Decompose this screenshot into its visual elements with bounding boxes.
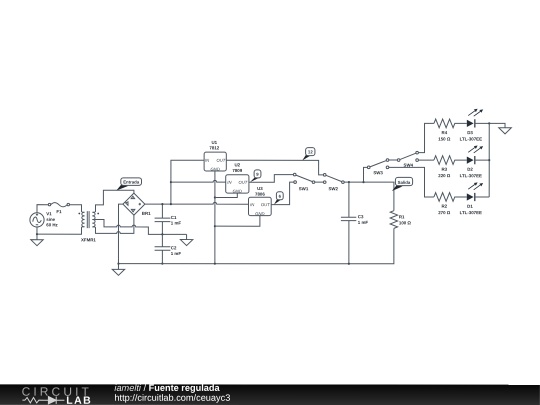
svg-text:R4: R4 xyxy=(442,130,448,135)
svg-text:R2: R2 xyxy=(441,204,447,209)
junction: V1 bottom / primary return / ground xyxy=(36,233,38,235)
wire secondary center tap (H1) to C1/C2 midpoint xyxy=(94,220,186,235)
svg-text:100 Ω: 100 Ω xyxy=(399,220,412,225)
flag 9 xyxy=(250,170,261,182)
junction: gnd line on bottom bus xyxy=(214,263,216,265)
svg-text:D1: D1 xyxy=(467,204,473,209)
resistor R3 xyxy=(434,156,467,178)
svg-text:XFMR1: XFMR1 xyxy=(81,237,96,242)
Salida flag xyxy=(392,177,413,191)
Entrada flag xyxy=(116,178,141,191)
resistor R1 xyxy=(390,211,411,229)
svg-text:OUT: OUT xyxy=(216,158,225,163)
U3 GND wire xyxy=(215,216,260,227)
wire SW4 top throw up to LED row 1 xyxy=(418,123,434,152)
svg-text:220 Ω: 220 Ω xyxy=(438,173,451,178)
wire SW3 pole down to output bus xyxy=(364,167,368,182)
switch SW1 xyxy=(293,173,314,191)
junction: U1 riser on dc bus xyxy=(170,203,172,205)
junction: C2 bottom on bottom bus xyxy=(161,263,163,265)
svg-text:1 mF: 1 mF xyxy=(358,220,369,225)
junction: C3 top on output bus xyxy=(348,181,350,183)
junction: U2 IN tap xyxy=(170,181,172,183)
ground under V1 xyxy=(31,234,43,246)
footer bar xyxy=(0,383,540,405)
svg-text:U1: U1 xyxy=(212,140,218,145)
switch SW3 xyxy=(367,159,388,176)
svg-text:D3: D3 xyxy=(467,130,473,135)
regulator U3 7806 xyxy=(248,186,271,216)
svg-text:V1: V1 xyxy=(46,211,52,216)
LED D1 xyxy=(460,182,490,215)
capacitor C1 xyxy=(155,204,182,234)
svg-text:C3: C3 xyxy=(358,214,364,219)
svg-text:Salida: Salida xyxy=(398,180,411,185)
wire SW3 top throw to SW4 pole xyxy=(389,159,398,161)
right vertical bus xyxy=(488,123,490,197)
svg-text:U3: U3 xyxy=(257,186,263,191)
LED D3 xyxy=(460,109,490,142)
wire SW3 bottom throw to LED row 3 xyxy=(389,167,434,197)
U1 OUT wire to SW2 top xyxy=(226,160,323,175)
junction: bottom bus / bridge ground xyxy=(117,263,119,265)
LED D2 xyxy=(460,145,490,178)
bridge rectifier BR1 xyxy=(123,193,151,216)
fuse F1 xyxy=(48,203,69,215)
svg-text:7812: 7812 xyxy=(209,145,219,150)
wire secondary top to bridge top xyxy=(95,190,133,211)
svg-text:OUT: OUT xyxy=(238,180,247,185)
svg-text:LTL-307EE: LTL-307EE xyxy=(460,210,482,215)
flag 12 xyxy=(302,148,315,161)
junction: U3 GND on gnd line xyxy=(214,225,216,227)
junction: D3 row / right bus / ground xyxy=(488,122,490,124)
svg-text:U2: U2 xyxy=(235,162,241,167)
svg-text:1 mF: 1 mF xyxy=(171,221,182,226)
svg-text:F1: F1 xyxy=(56,209,62,214)
svg-text:270 Ω: 270 Ω xyxy=(438,210,451,215)
svg-text:BR1: BR1 xyxy=(142,211,151,216)
svg-text:D2: D2 xyxy=(467,167,473,172)
regulator U2 7809 xyxy=(226,162,249,193)
U2 IN wire xyxy=(171,180,226,182)
svg-text:GND: GND xyxy=(233,189,242,194)
svg-text:C2: C2 xyxy=(171,245,177,250)
svg-text:LTL-307EE: LTL-307EE xyxy=(460,136,482,141)
voltage source V1 xyxy=(30,205,59,235)
wire bridge left vertex to ground xyxy=(118,204,122,264)
svg-text:C1: C1 xyxy=(171,215,177,220)
bottom bus xyxy=(118,228,393,264)
junction: U2 GND on gnd line xyxy=(214,196,216,198)
junction: C3 bottom on bottom bus xyxy=(348,263,350,265)
svg-text:SW2: SW2 xyxy=(328,186,338,191)
ground under bridge xyxy=(112,264,124,276)
transformer XFMR1 xyxy=(37,211,99,242)
main dc bus from bridge right xyxy=(145,202,249,204)
U3 OUT wire to SW1 bottom xyxy=(271,182,294,205)
ground right xyxy=(489,123,511,134)
svg-text:SW1: SW1 xyxy=(299,186,309,191)
svg-text:GND: GND xyxy=(211,167,220,172)
svg-text:LTL-307EE: LTL-307EE xyxy=(460,173,482,178)
svg-text:R3: R3 xyxy=(442,167,448,172)
wire SW1 pole to SW2 bottom throw xyxy=(315,181,324,183)
svg-text:R1: R1 xyxy=(399,214,405,219)
ground at C1/C2 midpoint xyxy=(180,234,192,245)
svg-text:12: 12 xyxy=(308,149,313,154)
junction: C1 top on dc bus xyxy=(161,203,163,205)
U1 GND vertical xyxy=(214,171,216,264)
svg-text:OUT: OUT xyxy=(261,202,270,207)
switch SW4 xyxy=(397,151,418,167)
capacitor C2 xyxy=(155,234,182,263)
U2 GND wire xyxy=(215,193,237,197)
resistor R2 xyxy=(434,193,467,215)
svg-text:150 Ω: 150 Ω xyxy=(438,136,451,141)
wire SW4 bottom throw to LED row 2 xyxy=(418,159,434,161)
svg-text:60 Hz: 60 Hz xyxy=(46,222,58,227)
regulator U1 7812 xyxy=(204,140,226,172)
svg-text:http://circuitlab.com/ceuayc3: http://circuitlab.com/ceuayc3 xyxy=(114,393,230,403)
svg-text:LAB: LAB xyxy=(66,395,92,405)
svg-text:Entrada: Entrada xyxy=(123,180,140,185)
svg-text:iamelti / Fuente regulada: iamelti / Fuente regulada xyxy=(114,383,220,393)
svg-text:7806: 7806 xyxy=(255,192,265,197)
junction: C1/C2 midpoint xyxy=(161,233,163,235)
switch SW2 xyxy=(323,174,344,192)
output bus from SW2 pole xyxy=(344,182,394,211)
svg-text:7809: 7809 xyxy=(232,168,242,173)
U2 OUT wire to SW1 top xyxy=(249,175,294,183)
resistor R4 xyxy=(434,119,467,141)
wire secondary bottom (H2) to bridge bottom xyxy=(95,215,133,233)
junction: D2 row on right bus xyxy=(488,159,490,161)
svg-text:SW3: SW3 xyxy=(373,170,383,175)
svg-text:sine: sine xyxy=(46,217,55,222)
flag 6 xyxy=(274,192,283,205)
wire fuse to transformer primary xyxy=(70,205,82,212)
junction: SW3 tap on output bus xyxy=(362,181,364,183)
capacitor C3 xyxy=(341,182,369,264)
riser to U1 IN xyxy=(171,160,204,204)
svg-text:1 mF: 1 mF xyxy=(171,251,182,256)
svg-text:GND: GND xyxy=(255,211,264,216)
